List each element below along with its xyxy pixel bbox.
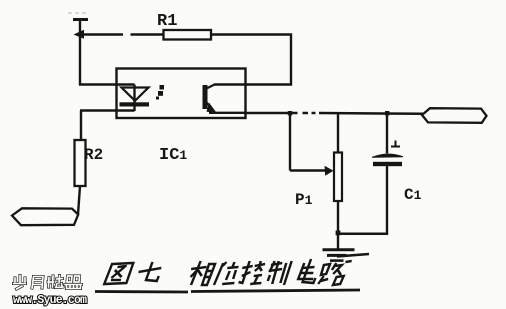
caption 图七 相位控制电路 (hand strokes) (104, 259, 352, 285)
wire anode into box (79, 83, 135, 85)
capacitor C1 polarity mark (391, 141, 400, 148)
arrow at node A (74, 30, 85, 39)
LED D1 axis wire (133, 85, 135, 112)
resistor R1 (164, 30, 212, 40)
output terminal (422, 108, 487, 123)
wire power vertical (79, 19, 81, 85)
wire R1 to right corner (211, 33, 292, 35)
phototransistor Q1 emitter arrow (207, 103, 217, 113)
wire rail dash a (303, 112, 309, 115)
capacitor C1 bottom plate (373, 162, 402, 166)
LED D1 triangle (122, 88, 149, 101)
char 制 (266, 261, 292, 285)
wire bottom P1 to C1 (337, 232, 388, 235)
phototransistor Q1 emitter (207, 103, 214, 111)
caption overbar (337, 254, 369, 257)
svg-text:R1: R1 (157, 12, 177, 31)
junction node rail-C1 (385, 111, 389, 115)
char 控 (238, 261, 265, 284)
ground (323, 250, 355, 261)
junction node P1-C1 bottom (336, 231, 341, 236)
resistor R2 wire up (80, 111, 82, 142)
char 图 (104, 263, 133, 284)
wire wiper horizontal (290, 169, 326, 171)
wire collector to right vertical (214, 83, 292, 85)
wire top to R1 (80, 33, 123, 35)
wire P1 top (337, 113, 339, 153)
caption underline (95, 290, 360, 292)
resistor R2 wire down (78, 186, 80, 215)
wire rail dash b (312, 112, 316, 115)
capacitor C1 top plate (372, 154, 403, 158)
wire wiper vertical (289, 113, 291, 171)
optocoupler IC1 box (117, 69, 246, 119)
wire right vertical (290, 34, 292, 86)
wire top to R1 second segment (131, 33, 165, 35)
junction node rail-wiper (288, 111, 292, 115)
phototransistor Q1 collector (207, 85, 215, 89)
svg-text:R2: R2 (84, 146, 103, 164)
char 路 (318, 261, 352, 285)
LED D1 cathode bar (120, 102, 150, 106)
char 位 (214, 262, 239, 285)
svg-text:P1: P1 (295, 191, 313, 209)
power T-bar (73, 18, 88, 21)
power rail dashes (68, 12, 87, 14)
input terminal (12, 208, 78, 225)
LED light marks (156, 85, 164, 100)
wiper arrow into P1 (325, 166, 334, 176)
phototransistor Q1 base bar (203, 85, 208, 109)
wire rail segment 1 (244, 112, 298, 115)
svg-text:C1: C1 (404, 186, 422, 204)
svg-text:IC1: IC1 (159, 146, 187, 165)
char 电 (297, 259, 319, 283)
char 七 (137, 262, 163, 281)
svg-text:www.Syue.com: www.Syue.com (13, 294, 87, 307)
wire C1 bottom (386, 166, 388, 235)
wire C1 top (386, 113, 388, 154)
potentiometer P1 body (334, 153, 342, 202)
char 相 (188, 261, 216, 285)
wire cathode from box (80, 109, 135, 111)
resistor R2 body (75, 140, 86, 186)
wire rail segment 2 (319, 112, 423, 115)
watermark 岁月联盟 (outlined) (14, 276, 82, 290)
wire ground stem (337, 233, 339, 249)
wire emitter out (209, 112, 246, 114)
wire P1 bottom (337, 201, 339, 235)
